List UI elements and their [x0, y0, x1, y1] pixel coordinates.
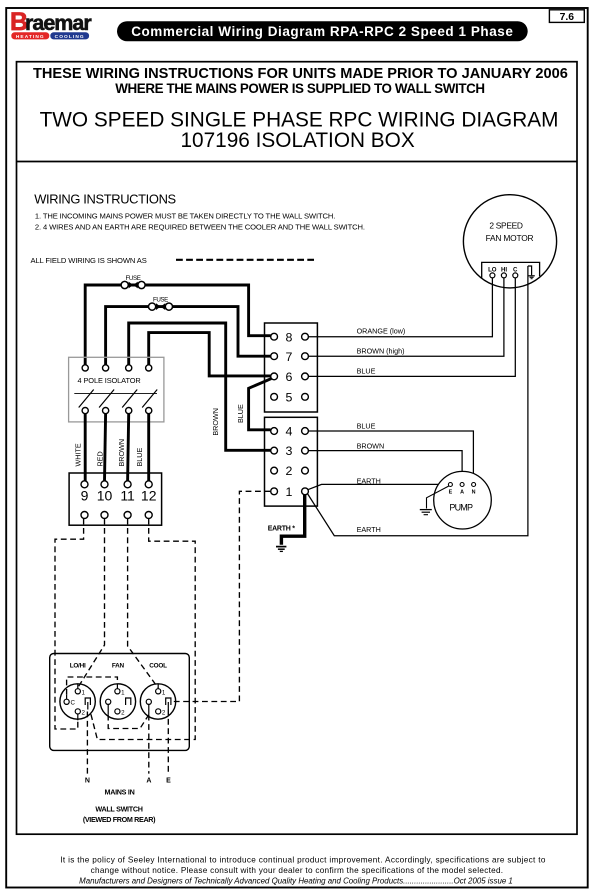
dashed wire LO/HI C to FAN 1	[67, 677, 118, 695]
svg-text:2: 2	[82, 709, 86, 716]
wire isolator to terminal 10	[105, 414, 106, 481]
svg-text:Manufacturers and Designers of: Manufacturers and Designers of Technical…	[79, 876, 513, 885]
terminal block TB1 (8 7 6 5)	[265, 323, 318, 412]
svg-text:THESE WIRING INSTRUCTIONS FOR: THESE WIRING INSTRUCTIONS FOR UNITS MADE…	[33, 66, 568, 82]
logo Braemar	[10, 8, 92, 40]
fan motor M1	[463, 195, 556, 288]
wire BLUE (isolator pole 4 to terminal 6)	[149, 333, 271, 376]
svg-text:BLUE: BLUE	[357, 422, 376, 431]
svg-text:4: 4	[285, 425, 292, 439]
svg-text:7.6: 7.6	[560, 12, 575, 23]
svg-text:BROWN: BROWN	[117, 439, 126, 467]
svg-text:8: 8	[285, 330, 292, 344]
svg-text:EARTH: EARTH	[357, 525, 381, 534]
ground symbol (pump)	[420, 510, 432, 515]
svg-text:WIRING INSTRUCTIONS: WIRING INSTRUCTIONS	[34, 192, 176, 207]
svg-text:10: 10	[97, 487, 113, 503]
svg-text:COOLING: COOLING	[55, 34, 85, 40]
wire EARTH* (terminal 1 to ground)	[281, 495, 304, 545]
svg-text:5: 5	[285, 390, 292, 404]
isolator top terminals	[82, 365, 152, 371]
isolator coupling bar	[74, 393, 157, 395]
svg-text:WALL SWITCH: WALL SWITCH	[95, 805, 142, 814]
dashed wire A drop	[148, 715, 150, 774]
svg-text:FUSE: FUSE	[126, 275, 141, 282]
svg-text:FAN: FAN	[112, 662, 125, 669]
svg-text:107196 ISOLATION BOX: 107196 ISOLATION BOX	[180, 129, 414, 152]
svg-text:TWO SPEED SINGLE PHASE RPC WIR: TWO SPEED SINGLE PHASE RPC WIRING DIAGRA…	[40, 108, 559, 131]
svg-text:PUMP: PUMP	[449, 502, 473, 512]
pump P1	[434, 471, 492, 529]
svg-text:6: 6	[285, 370, 292, 384]
svg-text:FUSE: FUSE	[153, 296, 168, 303]
svg-text:BROWN (high): BROWN (high)	[357, 346, 405, 355]
dashed wire 10 to LO/HI 1	[78, 519, 105, 688]
svg-text:(VIEWED FROM REAR): (VIEWED FROM REAR)	[83, 815, 156, 824]
svg-text:N: N	[472, 489, 476, 495]
svg-text:E: E	[166, 778, 171, 785]
terminal block TB3 (9 10 11 12)	[69, 473, 162, 525]
socket LO/HI	[60, 684, 95, 721]
svg-text:E: E	[449, 489, 453, 495]
fuse F2	[149, 296, 173, 310]
terminal block TB2 (4 3 2 1)	[265, 417, 318, 506]
svg-text:12: 12	[141, 487, 157, 503]
fuse F1	[121, 275, 145, 289]
wire isolator to terminal 9	[84, 414, 87, 481]
svg-text:1: 1	[82, 689, 86, 696]
svg-text:ORANGE (low): ORANGE (low)	[357, 326, 406, 335]
wire BROWN high (terminal 7 to motor HI)	[308, 278, 504, 356]
dashed wire 12 to LO/HI N square	[91, 519, 196, 740]
svg-text:1: 1	[285, 485, 292, 499]
svg-text:BROWN: BROWN	[211, 408, 220, 436]
wire link terminal 6 to terminal 4	[249, 379, 272, 430]
isolator switch blades	[79, 390, 158, 408]
svg-text:9: 9	[81, 487, 89, 503]
svg-text:1: 1	[162, 689, 166, 696]
svg-text:HEATING: HEATING	[16, 34, 45, 40]
title divider	[17, 161, 578, 163]
motor earth symbol	[528, 266, 532, 275]
svg-text:11: 11	[120, 487, 135, 503]
footer	[60, 856, 546, 886]
title text	[33, 66, 568, 152]
wiring instructions text	[31, 192, 365, 266]
svg-text:BLUE: BLUE	[135, 448, 144, 467]
wire isolator to terminal 11	[128, 414, 129, 481]
svg-text:A: A	[460, 489, 464, 495]
dashed wire 11 to COOL 1	[128, 519, 159, 688]
svg-text:WHITE: WHITE	[73, 443, 82, 466]
svg-text:BLUE: BLUE	[357, 366, 376, 375]
svg-text:2: 2	[162, 709, 166, 716]
svg-text:3: 3	[285, 444, 292, 458]
revision box 7.6	[549, 10, 584, 23]
wire BROWN (isolator pole 3 to terminal 3)	[129, 323, 271, 450]
svg-text:COOL: COOL	[149, 662, 167, 669]
svg-text:ALL FIELD WIRING IS SHOWN AS: ALL FIELD WIRING IS SHOWN AS	[31, 256, 147, 265]
wire EARTH (terminal 1 to motor earth)	[308, 266, 528, 536]
wire EARTH (terminal 1 to pump E)	[308, 484, 449, 489]
svg-text:A: A	[146, 778, 151, 785]
wire pump E to ground	[427, 486, 449, 509]
wire BROWN (terminal 3 to pump A)	[308, 451, 462, 483]
svg-text:4 POLE ISOLATOR: 4 POLE ISOLATOR	[78, 376, 141, 385]
svg-text:raemar: raemar	[25, 11, 92, 35]
field wiring legend dashes	[176, 259, 314, 261]
svg-text:FAN MOTOR: FAN MOTOR	[486, 233, 534, 243]
svg-text:EARTH: EARTH	[357, 476, 381, 485]
svg-text:MAINS IN: MAINS IN	[105, 788, 135, 797]
svg-text:RED: RED	[95, 451, 104, 466]
ground symbol (isolation box)	[276, 547, 286, 552]
dashed wire N drop	[86, 712, 88, 774]
svg-text:1: 1	[121, 689, 125, 696]
wire mains phase B (fuse to terminal 7)	[106, 307, 271, 366]
svg-text:BROWN: BROWN	[357, 442, 385, 451]
svg-text:change without notice. Please: change without notice. Please consult wi…	[91, 866, 504, 875]
svg-text:C: C	[71, 700, 76, 707]
motor terminal box	[482, 262, 540, 278]
svg-text:LO/HI: LO/HI	[70, 662, 86, 669]
wire ORANGE low (terminal 8 to motor LO)	[308, 278, 492, 337]
svg-text:2. 4 WIRES AND AN EARTH ARE RE: 2. 4 WIRES AND AN EARTH ARE REQUIRED BET…	[35, 222, 365, 231]
dashed wire FAN left to COOL left	[108, 715, 149, 729]
wire mains phase A (fuse to terminal 8)	[85, 285, 271, 365]
dashed wire terminal 1 to COOL earth square	[171, 491, 270, 701]
svg-text:N: N	[85, 778, 90, 785]
svg-text:BLUE: BLUE	[236, 404, 245, 423]
wall switch box	[50, 654, 190, 751]
socket COOL	[140, 684, 175, 719]
socket FAN	[100, 684, 135, 719]
wire BLUE (terminal 4 to pump N)	[308, 431, 473, 483]
svg-text:Commercial Wiring Diagram RPA-: Commercial Wiring Diagram RPA-RPC 2 Spee…	[131, 24, 513, 39]
svg-text:WHERE THE MAINS POWER IS SUPPL: WHERE THE MAINS POWER IS SUPPLIED TO WAL…	[115, 81, 484, 96]
svg-text:It is the policy of Seeley Int: It is the policy of Seeley International…	[60, 856, 546, 865]
svg-text:EARTH *: EARTH *	[268, 525, 296, 532]
dashed wire E drop	[167, 710, 169, 774]
svg-text:7: 7	[285, 350, 292, 364]
svg-text:2: 2	[121, 709, 125, 716]
svg-text:2 SPEED: 2 SPEED	[489, 221, 523, 231]
header title pill	[117, 21, 528, 41]
wire BLUE (terminal 6 to motor C)	[308, 278, 515, 377]
svg-text:1. THE INCOMING MAINS POWER MU: 1. THE INCOMING MAINS POWER MUST BE TAKE…	[35, 212, 335, 221]
isolator bottom terminals	[82, 408, 152, 414]
isolator box	[69, 357, 164, 422]
dashed wire 9 to LO/HI 2	[55, 519, 84, 729]
wire isolator to terminal 12	[147, 414, 150, 481]
svg-text:2: 2	[285, 464, 292, 478]
